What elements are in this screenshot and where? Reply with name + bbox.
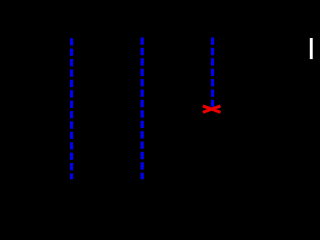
node: white bar at right edge: [310, 38, 313, 59]
wire: blue dashed vertical line 3: [211, 38, 214, 107]
node: red X marker: [203, 106, 221, 112]
wire: blue dashed vertical line 2: [141, 38, 144, 180]
wire: blue dashed vertical line 1: [70, 38, 73, 179]
